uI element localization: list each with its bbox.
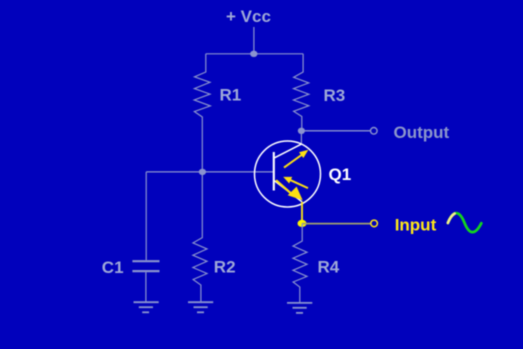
transistor Q1 emitter stroke bbox=[275, 181, 303, 202]
node collector junction bbox=[298, 128, 305, 134]
wire collector lead bbox=[300, 131, 302, 145]
wire top rail bbox=[206, 53, 303, 55]
wire base rail bbox=[146, 171, 274, 173]
label R1 bbox=[220, 86, 242, 105]
svg-text:R1: R1 bbox=[220, 86, 242, 105]
arrow base current bbox=[283, 177, 308, 188]
arrow collector current bbox=[284, 150, 308, 168]
label + Vcc bbox=[226, 7, 271, 26]
svg-text:+ Vcc: + Vcc bbox=[226, 7, 271, 26]
label R2 bbox=[214, 258, 236, 277]
svg-text:R4: R4 bbox=[318, 258, 340, 277]
wire C1 branch bbox=[145, 172, 147, 260]
node Vcc junction bbox=[250, 51, 257, 57]
ground (C1) bbox=[134, 302, 159, 312]
label C1 bbox=[102, 258, 124, 277]
wire input (olive) bbox=[302, 223, 371, 225]
transistor Q1 collector stroke bbox=[275, 144, 302, 158]
arrow emitter (big) bbox=[276, 180, 303, 200]
svg-text:R3: R3 bbox=[324, 86, 346, 105]
transistor Q1 bbox=[255, 141, 321, 207]
svg-text:C1: C1 bbox=[102, 258, 124, 277]
transistor Q1 base bar bbox=[273, 152, 275, 191]
label Input bbox=[395, 216, 437, 235]
ground (R4) bbox=[287, 303, 312, 313]
label R3 bbox=[324, 86, 346, 105]
resistor R2 bbox=[193, 172, 207, 302]
sine wave symbol bbox=[448, 213, 481, 232]
svg-text:Input: Input bbox=[395, 216, 437, 235]
resistor R3 bbox=[294, 54, 309, 131]
node emitter junction (yellow) bbox=[298, 220, 307, 227]
svg-text:Output: Output bbox=[394, 123, 450, 142]
capacitor C1 bbox=[132, 261, 159, 301]
svg-text:Q1: Q1 bbox=[329, 165, 352, 184]
ground (R2) bbox=[188, 302, 213, 312]
terminal input bbox=[371, 220, 378, 227]
label R4 bbox=[318, 258, 340, 277]
node base junction bbox=[199, 169, 206, 175]
transistor Q1 body circle bbox=[255, 141, 321, 207]
terminal output bbox=[371, 128, 378, 135]
resistor R1 bbox=[194, 54, 210, 172]
svg-text:R2: R2 bbox=[214, 258, 236, 277]
wire emitter lead (yellow) bbox=[301, 202, 303, 220]
wire Vcc lead bbox=[253, 27, 255, 54]
wire output bbox=[301, 130, 370, 132]
resistor R4 bbox=[293, 223, 307, 302]
label Output bbox=[394, 123, 450, 142]
label Q1 bbox=[329, 165, 352, 184]
